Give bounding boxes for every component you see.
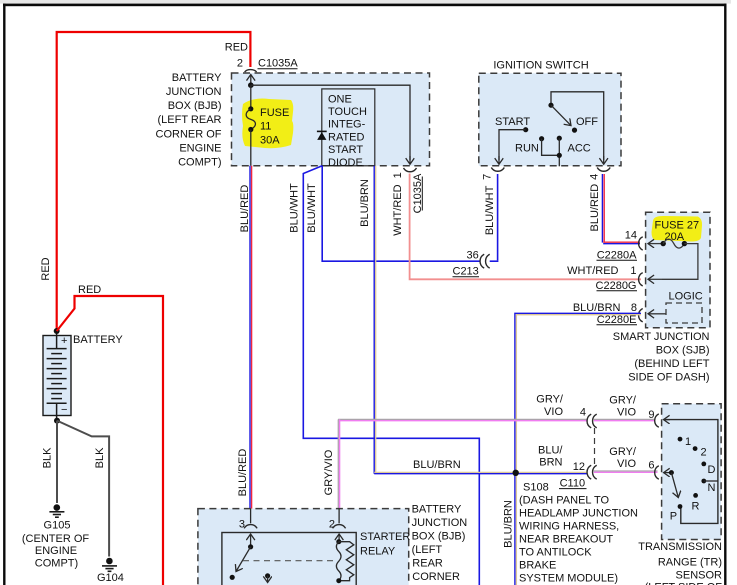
svg-text:4: 4 [580,406,586,418]
splice S108 dot [513,470,519,476]
battery plates [47,331,67,421]
svg-text:14: 14 [625,230,637,242]
svg-text:20A: 20A [665,231,685,243]
diode D1 symbol [317,130,327,132]
relay pin 3 stub [250,509,252,524]
svg-text:4: 4 [588,174,600,180]
svg-text:6: 6 [648,460,654,472]
connector C1035A pin 2 arc [245,70,257,72]
battery junction box (BJB) dashed box [232,73,430,166]
connector TR pin 6 arc [655,466,659,479]
wire BLU/RED (fuse 11 to starter relay pin 3) [249,166,251,524]
relay output arrow (down) [267,576,269,583]
wire WHT/RED (C1035A pin1 to C2280G) [410,174,641,280]
relay contact dot (left) [230,575,235,580]
svg-text:WIRING HARNESS,: WIRING HARNESS, [519,521,619,533]
svg-text:CORNER OF: CORNER OF [156,129,222,141]
svg-text:BLU/WHT: BLU/WHT [306,183,318,233]
wire BLK to G105 [56,421,58,503]
svg-text:P: P [670,511,677,523]
svg-text:REAR: REAR [412,557,443,569]
S108 text block [519,482,638,585]
battery positive node dot [54,328,60,334]
BJB (starter relay) dashed box [198,509,409,585]
diode box text [328,94,367,170]
svg-text:1: 1 [685,436,691,448]
svg-text:BLU/RED: BLU/RED [239,185,251,233]
relay output contact dot [265,573,270,578]
svg-text:RUN: RUN [515,142,539,154]
svg-text:START: START [495,116,530,128]
TR switch arm [671,473,678,498]
svg-text:TRANSMISSION: TRANSMISSION [638,541,722,553]
wire BLU/WHT #1 (diode to lower run) [303,166,479,585]
svg-text:BLU/RED: BLU/RED [237,449,249,497]
svg-text:ONE: ONE [328,94,352,106]
svg-text:(LEFT SIDE OF: (LEFT SIDE OF [645,582,723,585]
svg-text:RED: RED [225,42,248,54]
TR sensor dashed box [662,404,722,540]
svg-text:12: 12 [573,461,585,473]
svg-text:CORNER: CORNER [412,571,460,583]
RUN contact dot [539,136,544,141]
svg-text:GRY/: GRY/ [536,394,564,406]
svg-text:+: + [61,335,67,347]
svg-text:BRAKE: BRAKE [519,560,556,572]
svg-text:NEAR BREAKOUT: NEAR BREAKOUT [519,534,613,546]
TR arm pivot dot [669,470,674,475]
svg-text:SMART JUNCTION: SMART JUNCTION [613,331,710,343]
svg-text:BLK: BLK [94,447,106,468]
pin 4 arrow (down) [603,156,605,164]
top gray bar [0,0,731,4]
svg-text:START: START [328,144,363,156]
fuse 11 highlight [242,99,293,149]
svg-text:JUNCTION: JUNCTION [412,517,468,529]
ground G105 symbol [49,504,64,517]
top border line [3,4,727,7]
svg-text:VIO: VIO [617,458,636,470]
svg-text:(CENTER OF: (CENTER OF [22,533,90,545]
svg-text:GRY/VIO: GRY/VIO [323,449,335,495]
svg-text:C213: C213 [453,266,479,278]
svg-text:BRN: BRN [539,457,562,469]
relay arm pivot dot [248,544,253,549]
svg-text:S108: S108 [523,482,549,494]
svg-text:BATTERY: BATTERY [172,72,222,84]
TR inner box outline (open left) [664,420,718,524]
svg-text:FUSE 27: FUSE 27 [655,220,700,232]
wire GRY/VIO down to relay pin 2 [337,419,339,523]
svg-text:BOX (BJB): BOX (BJB) [412,531,466,543]
svg-text:2: 2 [237,58,243,70]
START contact dot [523,127,528,132]
svg-text:RED: RED [40,257,52,280]
OFF contact dot [572,128,577,133]
right border line [724,4,726,585]
svg-text:COMPT): COMPT) [35,558,78,570]
svg-text:C110: C110 [560,477,585,489]
svg-text:BLU/WHT: BLU/WHT [484,185,496,235]
svg-text:SYSTEM MODULE): SYSTEM MODULE) [519,573,618,585]
starter relay inner box [222,533,356,585]
svg-text:DIODE: DIODE [328,157,363,169]
TR pin 9 arrow [664,419,671,421]
svg-text:SIDE OF DASH): SIDE OF DASH) [628,372,709,384]
wire BLU/BRN S108 to C110 pin 12 [512,471,587,473]
wire GRY/VIO C110 pin12 to TR pin 6 [594,470,658,472]
svg-text:BLU/BRN: BLU/BRN [413,459,461,471]
wire BLK to G104 [57,421,109,557]
svg-text:R: R [692,501,700,513]
svg-text:C2280G: C2280G [596,280,637,292]
svg-text:BLU/RED: BLU/RED [589,184,601,232]
ignition switch arm (to OFF) [551,105,571,125]
wire RED battery to C1035A pin 2 [57,32,251,330]
svg-text:(BEHIND LEFT: (BEHIND LEFT [634,358,709,370]
pin 7 arrow (down) [498,156,500,164]
pin 2 arrow (up) [338,534,340,542]
connector ignition pin 4 arc [597,168,610,172]
svg-text:TO ANTILOCK: TO ANTILOCK [519,547,592,559]
wire START to pin 7 [499,130,526,160]
ignition switch dashed box [479,73,621,166]
pin 2 arrow (up, into connector) [250,75,252,86]
svg-text:G104: G104 [97,572,124,584]
svg-text:BOX (SJB): BOX (SJB) [656,345,710,357]
svg-text:(LEFT: (LEFT [412,544,443,556]
SJB dashed box [646,212,710,327]
C2280E pin arrow + wire to logic [648,313,666,315]
svg-text:7: 7 [481,174,493,180]
svg-text:BLU/BRN: BLU/BRN [503,500,515,548]
logic dashed box [666,303,702,323]
svg-text:VIO: VIO [544,406,563,418]
svg-text:8: 8 [631,302,637,314]
svg-text:N: N [708,482,716,494]
wire ACC down [558,138,560,166]
connector TR pin 9 arc [655,414,659,427]
svg-text:GRY/: GRY/ [609,395,637,407]
relay pin 2 stub [338,509,340,524]
svg-text:RELAY: RELAY [360,546,396,558]
svg-text:BLU/: BLU/ [538,445,563,457]
wire BLU/RED ignition pin4 to C2280A [601,174,603,243]
svg-text:BATTERY: BATTERY [73,334,123,346]
svg-text:9: 9 [648,409,654,421]
svg-text:IGNITION SWITCH: IGNITION SWITCH [493,60,588,72]
svg-text:FUSE: FUSE [260,107,289,119]
svg-text:HEADLAMP JUNCTION: HEADLAMP JUNCTION [519,508,638,520]
ignition pivot dot [548,103,553,108]
relay economizer resistor [339,542,354,581]
fuse 11 element [248,106,253,111]
svg-text:(DASH PANEL TO: (DASH PANEL TO [519,495,610,507]
connector C1035A pin 1 arc [404,168,417,172]
svg-text:BATTERY: BATTERY [412,504,462,516]
pin 3 arrow (up) [250,534,252,547]
svg-text:TOUCH: TOUCH [328,106,367,118]
wire BLU/WHT #2 (diode to C213) [322,166,479,261]
svg-text:(LEFT REAR: (LEFT REAR [158,114,222,126]
ignition internal wire (top feed) [551,92,604,160]
wire BLU/BRN down from S108 [514,473,516,585]
G105 text block [22,520,90,570]
svg-text:OFF: OFF [576,116,598,128]
connector relay pin 3 arc [244,525,257,529]
pin 1 arrow (down) [409,156,411,164]
fuse 11 wire lower [250,130,252,166]
svg-text:ACC: ACC [568,142,591,154]
svg-text:2: 2 [329,519,335,531]
BJB left text block [156,72,223,169]
svg-text:2: 2 [701,447,707,459]
C110 harness dashed link [594,428,596,465]
svg-text:C2280E: C2280E [597,314,637,326]
relay coil winding [336,542,341,581]
battery box [43,336,71,416]
connector C110 pin 12 arcs [587,465,591,479]
connector C2280A arc [639,237,643,250]
wire RED battery to bottom (starter) [57,296,163,585]
connector ignition pin 7 arc [491,168,504,172]
relay switch arm [236,547,251,572]
relay mechanical dashed link [243,560,336,562]
svg-text:C1035A: C1035A [258,58,298,70]
wire BLU/BRN C2280E branch [515,313,641,472]
svg-text:−: − [61,404,67,416]
svg-text:BOX (BJB): BOX (BJB) [168,100,222,112]
ACC contact dot [557,136,562,141]
battery negative node dot [54,418,60,424]
connector C2280E arc [639,309,643,322]
connector C110 pin 4 arcs [587,414,591,428]
fuse 27 feed arrow + element [648,243,663,245]
svg-text:RANGE (TR): RANGE (TR) [658,557,722,569]
one touch diode label box [322,89,375,166]
svg-text:WHT/RED: WHT/RED [567,265,618,277]
svg-text:36: 36 [467,250,479,262]
svg-text:ENGINE: ENGINE [35,545,77,557]
junction node dot [248,82,254,88]
left border line [3,4,5,585]
TR contact dots + labels [678,437,683,442]
svg-text:VIO: VIO [617,407,636,419]
svg-text:WHT/RED 1: WHT/RED 1 [392,172,404,236]
svg-text:3: 3 [239,519,245,531]
SJB text block [613,331,710,384]
svg-text:STARTER: STARTER [360,531,410,543]
svg-text:ENGINE: ENGINE [179,143,221,155]
fuse 27 output wire to C2280G [662,244,698,280]
TR pin 6 arrow [664,472,672,474]
relay coil top dot [336,539,341,544]
BJB#2 right text block [412,504,468,583]
svg-text:GRY/: GRY/ [609,446,637,458]
wire RUN to ACC junction [542,139,560,156]
wire BLU/BRN (diode box to S108) [373,166,375,474]
svg-text:BLU/WHT: BLU/WHT [289,183,301,233]
svg-text:INTEG-: INTEG- [328,119,366,131]
svg-text:BLU/BRN: BLU/BRN [573,302,621,314]
svg-text:BLK: BLK [41,447,53,468]
svg-text:RATED: RATED [328,132,365,144]
svg-text:LOGIC: LOGIC [669,291,703,303]
svg-text:JUNCTION: JUNCTION [166,86,222,98]
svg-text:SENSOR: SENSOR [676,570,723,582]
svg-text:D: D [708,464,716,476]
svg-text:1: 1 [630,265,636,277]
connector C2280G arc [639,273,643,286]
TR sensor text block [638,541,722,585]
fuse 11 wire upper [250,85,252,109]
wire BLU/WHT pin 7 down to C213 junction [497,174,499,260]
svg-text:BLU/BRN: BLU/BRN [359,179,371,227]
svg-text:G105: G105 [44,520,71,532]
svg-text:COMPT): COMPT) [178,157,221,169]
ground G104 symbol [102,558,117,572]
connector C213 arcs [480,254,484,268]
wire (black) across BJB to pin 1 [251,85,410,160]
wire GRY/VIO horizontal to TR pin 9 [338,418,586,420]
relay coil bottom dot [336,578,341,583]
svg-text:11: 11 [260,121,271,133]
ACC junction dot [557,153,562,158]
svg-text:C2280A: C2280A [597,249,637,261]
fuse 27 highlight [652,216,703,242]
svg-text:30A: 30A [260,135,280,147]
svg-text:RED: RED [78,284,101,296]
connector relay pin 2 arc [333,525,346,529]
